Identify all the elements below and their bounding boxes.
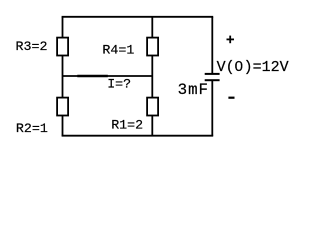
capacitor C1 top plate <box>205 73 220 75</box>
wire middle vertical branch (R4, R1) <box>151 17 153 136</box>
svg-text:R3=2: R3=2 <box>16 39 48 54</box>
wire middle horizontal (node between R3/R2 and R4/R1) <box>63 75 153 77</box>
current arrow I (thick segment on middle wire) <box>77 75 108 78</box>
resistor R4 <box>147 38 158 56</box>
polarity plus sign <box>227 36 235 44</box>
wire right vertical top (to capacitor top plate) <box>211 17 213 73</box>
resistor R2 <box>57 98 68 116</box>
svg-text:R4=1: R4=1 <box>102 43 134 58</box>
wire left vertical branch (R3, R2) <box>62 17 64 136</box>
svg-text:R1=2: R1=2 <box>111 117 143 132</box>
svg-text:R2=1: R2=1 <box>16 121 48 136</box>
svg-text:3mF: 3mF <box>178 81 209 99</box>
wire bottom (bottom node) <box>62 135 214 137</box>
svg-text:I=?: I=? <box>107 77 131 92</box>
polarity minus sign <box>228 97 234 99</box>
capacitor C1 bottom plate <box>205 79 220 81</box>
wire top (node from left branch to capacitor branch) <box>62 16 214 18</box>
svg-text:V(0)=12V: V(0)=12V <box>217 58 289 76</box>
resistor R3 <box>57 38 68 56</box>
resistor R1 <box>147 98 158 116</box>
wire right vertical bottom (from capacitor bottom plate) <box>211 81 213 136</box>
